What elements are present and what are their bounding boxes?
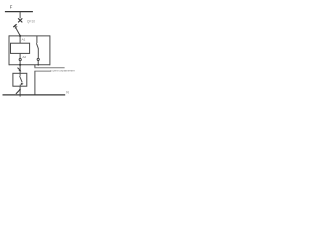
stop button stub [19, 73, 21, 76]
wire contact circle to ring bottom [37, 61, 39, 65]
wire top bus L [5, 11, 33, 13]
svg-text:QF10: QF10 [27, 19, 35, 23]
stop button blade [20, 76, 23, 83]
node junction dot coil bottom [19, 64, 21, 66]
wire ring right [49, 35, 51, 65]
breaker QF10 blade end tick [13, 24, 16, 27]
breaker QF10 blade [15, 26, 20, 36]
wire SB box to rail [19, 86, 21, 96]
actuator arrow below SB box [16, 90, 20, 94]
stop button blade arrowhead [21, 83, 24, 85]
wire bus drop to QF [19, 12, 21, 19]
contact KM aux blade [36, 43, 38, 49]
wire ring left [8, 35, 10, 65]
actuator arrow head below SB box [19, 89, 21, 91]
stop button SB box [13, 73, 27, 86]
wire break to rail [34, 71, 36, 95]
breaker QF10 X terminal [18, 18, 22, 22]
actuator arrow head above SB box [19, 69, 22, 71]
coil KM rectangle [11, 43, 30, 53]
wire coil junction down to SB box [19, 65, 21, 74]
break line lower [34, 70, 51, 72]
wire coil A2 down [19, 53, 21, 58]
node junction dot top [19, 35, 21, 37]
stop button bottom wire [19, 84, 21, 86]
wire junction to coil KM A1 [19, 36, 21, 43]
wire ring top [9, 35, 50, 37]
actuator arrow above SB box [18, 68, 21, 71]
breaker QF10 blade tick 2 [15, 26, 17, 28]
contact KM aux top wire [36, 36, 38, 43]
wire circle to ring bottom [19, 61, 21, 65]
terminal circle contact branch [37, 58, 39, 60]
contact KM aux bottom wire [37, 49, 39, 59]
svg-text:A2: A2 [22, 55, 26, 59]
wire ring bottom [9, 64, 50, 66]
wire stub ring bottom to break [34, 65, 36, 68]
svg-text:N: N [66, 91, 69, 95]
svg-text:F: F [10, 4, 13, 9]
node junction dot contact bottom [37, 64, 39, 66]
svg-text:A1: A1 [22, 38, 26, 42]
bottom rail N [3, 94, 66, 96]
break line upper [34, 67, 64, 69]
svg-text:к цепи управления: к цепи управления [50, 69, 75, 73]
terminal circle coil branch [19, 59, 21, 61]
